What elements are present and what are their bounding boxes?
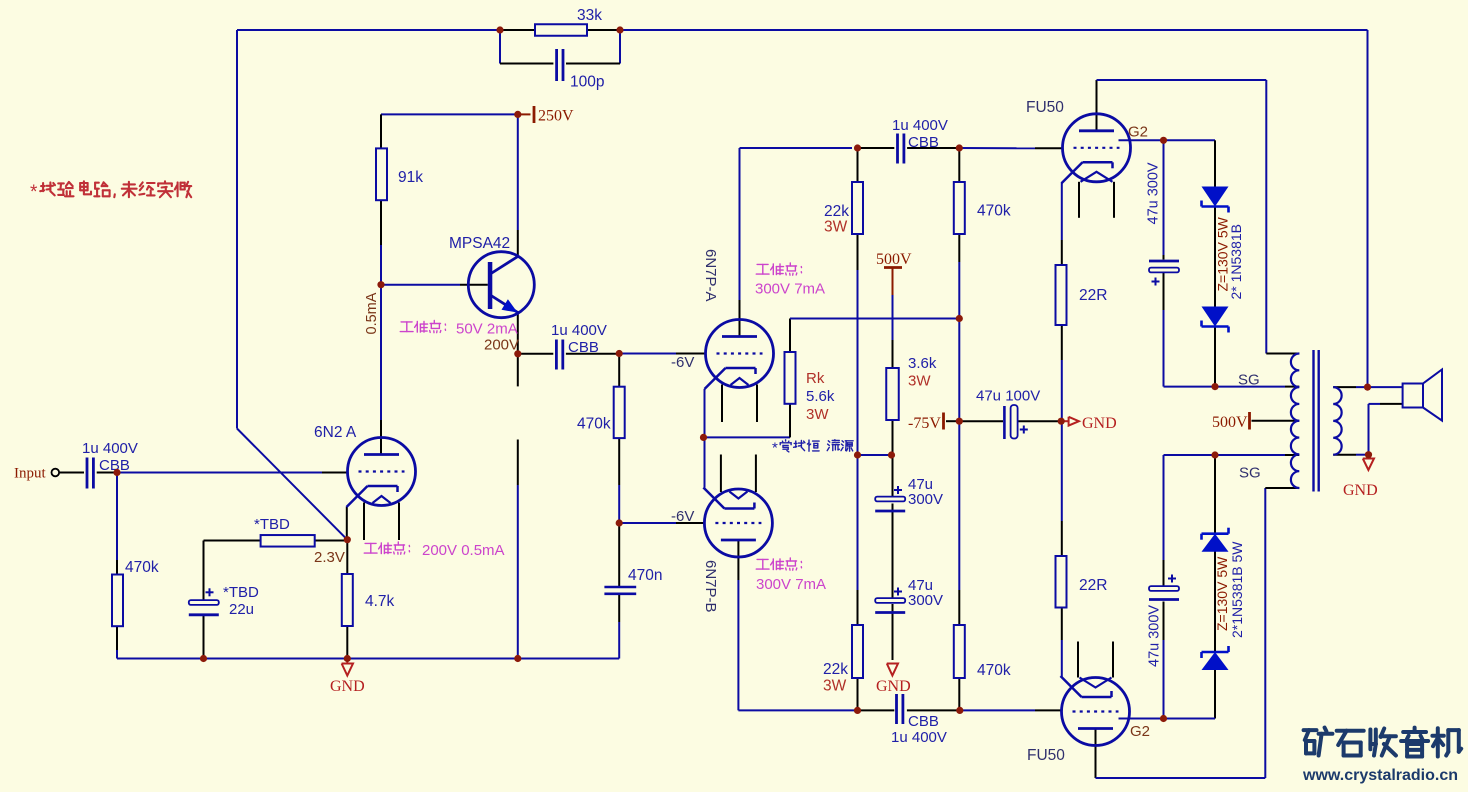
capacitor 22u TBD (189, 584, 259, 618)
svg-text:SG: SG (1239, 465, 1261, 482)
svg-text:300V 7mA: 300V 7mA (756, 576, 826, 593)
svg-text:470k: 470k (977, 203, 1011, 220)
svg-text:2*1N5381B 5W: 2*1N5381B 5W (1229, 541, 1245, 638)
watermark crystalradio (1304, 728, 1462, 757)
wire to 6N7P-B grid (619, 522, 704, 524)
resistor 3.6k (886, 355, 937, 420)
svg-text:91k: 91k (398, 169, 423, 186)
svg-text:100p: 100p (570, 74, 604, 91)
svg-text:470k: 470k (977, 662, 1011, 679)
capacitor filter 47u 300V upper (875, 476, 943, 511)
label 工作点 200V 0.5mA (364, 542, 504, 559)
svg-text:200V: 200V (484, 337, 519, 354)
wire zener top chain (1214, 207, 1216, 387)
wire 500V mid column (892, 295, 894, 368)
tube FU50 bottom (1027, 642, 1130, 765)
wire 4.7k leads (346, 540, 348, 659)
svg-text:500V: 500V (1212, 414, 1248, 431)
svg-text:3W: 3W (824, 219, 848, 236)
power -75V (908, 413, 944, 433)
svg-text:SG: SG (1238, 372, 1260, 389)
svg-text:-6V: -6V (671, 354, 694, 371)
svg-text:4.7k: 4.7k (365, 593, 395, 610)
wire 3.6k to filter node (892, 420, 894, 455)
wire filter caps column (892, 455, 894, 660)
zener D3 bottom (1202, 528, 1229, 552)
resistor TBD (254, 516, 315, 547)
svg-text:-6V: -6V (671, 508, 694, 525)
wire input to 6N2 grid (117, 472, 347, 474)
port Input (14, 466, 59, 482)
label SG bottom (1239, 465, 1261, 482)
svg-text:300V: 300V (908, 491, 943, 508)
transformer secondary winding (1333, 387, 1341, 455)
wire to 6N7P-A grid (619, 353, 705, 355)
svg-text:0.5mA: 0.5mA (364, 292, 380, 334)
wire coupling cap leads (518, 353, 619, 355)
svg-text:22u: 22u (229, 601, 254, 618)
zener D1 top (1202, 187, 1229, 213)
label G2 bottom (1130, 723, 1150, 740)
svg-text:3W: 3W (908, 373, 931, 390)
capacitor top mid 1u 400V CBB (892, 117, 948, 164)
svg-text:200V 0.5mA: 200V 0.5mA (422, 542, 505, 559)
wire top mid cap pins (858, 147, 960, 149)
wire FU50 top G2 (1119, 140, 1216, 187)
wire SG top to transformer (1215, 386, 1299, 388)
label -6V lower (671, 508, 694, 525)
wire TBD resistor right lead (315, 540, 348, 542)
svg-text:Rk: Rk (806, 370, 825, 387)
tube 6N7P-B (702, 455, 772, 613)
resistor Rk 5.6k 3W (785, 352, 835, 423)
label zener bottom (1214, 541, 1245, 638)
capacitor 47u 300V g2 top (1146, 162, 1180, 285)
wire 47u300V top column (1164, 140, 1216, 386)
svg-text:6N7P-A: 6N7P-A (702, 249, 719, 302)
power 500V right (1212, 412, 1250, 431)
resistor 22R bottom (1056, 556, 1108, 608)
svg-text:500V: 500V (876, 251, 912, 268)
wire 6N7P-A anode up and over (740, 148, 853, 337)
svg-text:G2: G2 (1130, 723, 1150, 740)
wire 500V right pin (1252, 420, 1300, 422)
speaker (1403, 370, 1442, 421)
wire 6N2 cathode drop (346, 507, 348, 540)
wire feedback left drop (236, 30, 238, 429)
capacitor input 1u 400V CBB (82, 440, 138, 489)
wire -75V pin (946, 420, 959, 422)
label 工作点 300V 7mA upper (755, 263, 825, 298)
wire 470k mid column (618, 354, 620, 524)
wire FU50 bottom G2 (1119, 718, 1216, 720)
svg-text:1u 400V: 1u 400V (551, 322, 607, 339)
transistor MPSA42 (449, 235, 534, 318)
ground GND mid (876, 664, 911, 696)
capacitor coupling 1u 400V CBB (551, 322, 607, 370)
svg-text:MPSA42: MPSA42 (449, 235, 510, 252)
svg-text:2* 1N5381B: 2* 1N5381B (1228, 224, 1244, 300)
wire 47u300V bottom column (1163, 455, 1165, 719)
tube 6N2 A (314, 424, 416, 540)
wire constant current link (858, 454, 892, 456)
svg-text:3W: 3W (806, 406, 829, 423)
svg-text:470k: 470k (577, 416, 611, 433)
ground GND left (330, 659, 365, 696)
wire FU50 bottom anode to transformer (1096, 488, 1300, 778)
wire top grid to FU50 (959, 147, 1062, 149)
capacitor 100p (557, 49, 605, 91)
capacitor filter 47u 300V lower (875, 577, 943, 613)
label 200V (484, 337, 519, 354)
wire 250V rail to 91k (381, 113, 518, 115)
wire MPSA42 collector (517, 114, 519, 257)
wire zener bottom chain (1214, 455, 1216, 719)
wire 91k top pin (380, 114, 382, 148)
resistor 33k (535, 7, 602, 36)
svg-text:470n: 470n (628, 567, 662, 584)
wire MPSA42 base (381, 284, 488, 286)
tube FU50 top (1026, 99, 1131, 218)
wire MPSA42 emitter to 200V node (517, 313, 519, 354)
ground GND right arrow (1061, 415, 1116, 432)
wire 22u cap column (203, 541, 205, 659)
wire 22R column (1061, 183, 1063, 677)
wire SG bottom to transformer (1164, 454, 1300, 456)
svg-text:Input: Input (14, 466, 46, 482)
svg-text:Z=130V 5W: Z=130V 5W (1214, 556, 1230, 631)
resistor 4.7k (342, 574, 395, 626)
wire input cap to junction (97, 472, 117, 474)
wire feedback diagonal to 6N2 cathode (237, 429, 347, 540)
label 2.3V (314, 549, 345, 566)
wire cathode junction to Rk (704, 436, 791, 438)
svg-text:1u 400V: 1u 400V (892, 117, 948, 134)
svg-text:22R: 22R (1079, 577, 1107, 594)
wire 22k top column (857, 148, 859, 710)
label 工作点 50V 2mA (400, 321, 517, 338)
label SG top (1238, 372, 1260, 389)
svg-text:250V: 250V (538, 108, 574, 125)
wire top feedback rail (237, 30, 1368, 387)
resistor 91k (376, 148, 423, 200)
svg-text:1u 400V: 1u 400V (891, 729, 947, 746)
svg-text:50V 2mA: 50V 2mA (456, 321, 518, 338)
svg-text:GND: GND (1343, 482, 1378, 499)
wire 47u100V leads (959, 420, 1061, 422)
svg-text:CBB: CBB (908, 713, 939, 730)
svg-text:22k: 22k (823, 661, 848, 678)
wire input port to cap (59, 472, 84, 474)
resistor 22k top (824, 182, 863, 236)
wire FU50 top anode to transformer (1097, 80, 1300, 354)
svg-text:-75V: -75V (908, 415, 941, 432)
svg-text:FU50: FU50 (1026, 99, 1064, 116)
power 250V (519, 106, 574, 125)
svg-text:300V 7mA: 300V 7mA (755, 281, 825, 298)
svg-text:GND: GND (330, 678, 365, 695)
capacitor 470n (604, 567, 662, 594)
svg-text:6N7P-B: 6N7P-B (702, 560, 719, 613)
wire 33k resistor pins (502, 29, 618, 31)
capacitor 47u 100V (976, 388, 1040, 440)
wire input 470k column (116, 473, 118, 659)
svg-text:6N2 A: 6N2 A (314, 424, 357, 441)
svg-text:47u 300V: 47u 300V (1147, 605, 1163, 667)
wire secondary top to speaker (1333, 386, 1402, 388)
label test circuit note (30, 181, 191, 203)
svg-text:33k: 33k (577, 7, 602, 24)
wire ground rail left (117, 658, 619, 660)
svg-text:*TBD: *TBD (223, 584, 259, 601)
resistor 22R top (1056, 265, 1108, 325)
label G2 top (1128, 124, 1148, 141)
svg-text:www.crystalradio.cn: www.crystalradio.cn (1302, 767, 1458, 784)
svg-text:CBB: CBB (568, 339, 599, 356)
svg-text:300V: 300V (908, 592, 943, 609)
wire Rk bottom lead (789, 404, 791, 438)
wire bottom rail to FU50 grid (858, 709, 1062, 711)
resistor 22k bottom (823, 625, 863, 695)
svg-text:GND: GND (876, 678, 911, 695)
svg-text:22k: 22k (824, 203, 849, 220)
label 0.5mA (364, 292, 380, 334)
wire 100k to ground rail (517, 440, 519, 659)
svg-text:*: * (30, 182, 38, 203)
wire speaker bottom return (1369, 404, 1403, 455)
zener D4 bottom (1202, 646, 1229, 670)
resistor input 470k (112, 559, 159, 626)
wire 470n leads (618, 523, 620, 659)
svg-text:47u 300V: 47u 300V (1146, 162, 1162, 224)
label zener top (1215, 216, 1245, 299)
capacitor bottom 1u 400V CBB (891, 694, 947, 746)
transformer primary winding (1291, 354, 1299, 489)
svg-text:47u 100V: 47u 100V (976, 388, 1040, 405)
svg-text:G2: G2 (1128, 124, 1148, 141)
svg-text:470k: 470k (125, 559, 159, 576)
label -6V upper (671, 354, 694, 371)
wire 91k bottom lead (380, 200, 382, 285)
label constant current note (772, 440, 853, 457)
svg-text:3W: 3W (823, 678, 847, 695)
wire 100p branch (500, 30, 620, 64)
svg-text:FU50: FU50 (1027, 747, 1065, 764)
resistor 470k top (954, 182, 1011, 234)
svg-text:5.6k: 5.6k (806, 388, 835, 405)
ground GND transformer (1343, 455, 1378, 499)
svg-text:*: * (772, 440, 778, 457)
wire 6N2 anode (380, 285, 382, 455)
resistor 470k bottom (954, 625, 1011, 679)
tube 6N7P-A (702, 249, 774, 422)
watermark url (1302, 767, 1458, 784)
capacitor 47u 300V g2 bottom (1147, 575, 1180, 668)
wire 470k bias column (958, 148, 960, 710)
wire 200V node to 100k (517, 354, 519, 387)
svg-text:1u 400V: 1u 400V (82, 440, 138, 457)
svg-text:CBB: CBB (908, 134, 939, 151)
wire TBD resistor left lead (204, 540, 261, 542)
zener D2 top (1202, 307, 1229, 333)
wire 6N7P tubes cathode link (704, 389, 706, 488)
svg-text:2.3V: 2.3V (314, 549, 345, 566)
power 500V mid (876, 251, 912, 295)
wire 100p cap pins (500, 63, 620, 65)
wire Rk top to bias line (790, 319, 959, 353)
resistor 470k mid (577, 387, 625, 438)
wire 6N7P-B anode down and over (738, 540, 857, 710)
svg-text:22R: 22R (1079, 287, 1107, 304)
svg-text:*TBD: *TBD (254, 516, 290, 533)
label 工作点 300V 7mA lower (756, 558, 826, 593)
transformer core (1314, 350, 1319, 492)
svg-text:GND: GND (1082, 415, 1117, 432)
svg-text:3.6k: 3.6k (908, 355, 937, 372)
wire secondary bottom to ground (1333, 454, 1368, 456)
